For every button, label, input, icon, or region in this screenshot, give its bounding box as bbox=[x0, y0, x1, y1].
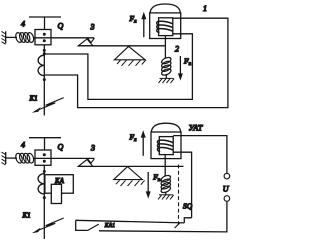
lever 3 bbox=[78, 45, 165, 47]
SQ contact tick bbox=[175, 223, 180, 228]
SQ step wire to KA1 line bbox=[184, 218, 191, 223]
electromagnet YAT body bbox=[151, 123, 181, 158]
force arrow F armature (up, bottom) bbox=[141, 130, 146, 156]
armature rod bbox=[164, 36, 166, 59]
svg-text:3: 3 bbox=[90, 23, 95, 32]
junction dots on conductor (bottom) bbox=[43, 170, 46, 199]
spring 4 bbox=[15, 32, 35, 43]
electromagnet 1 body bbox=[150, 4, 181, 39]
spring 2 bbox=[161, 56, 172, 78]
svg-text:Q: Q bbox=[58, 142, 64, 151]
terminal circle U- bbox=[224, 196, 230, 202]
contact bar wire through box bbox=[34, 37, 95, 39]
wire coil1 top to CT bottom (outer loop) bbox=[45, 18, 228, 107]
fulcrum pivot bbox=[114, 46, 145, 65]
contact dots in box (bottom) bbox=[43, 153, 46, 163]
force arrow F armature (up) bbox=[141, 12, 146, 37]
contact box Q (bottom) bbox=[35, 150, 51, 165]
wall anchor (hatched) bbox=[2, 31, 6, 44]
latch triangle on lever (bottom) bbox=[78, 160, 93, 167]
junction dots on conductor bbox=[43, 49, 46, 81]
force arrow F spring (down) bbox=[178, 56, 183, 81]
svg-text:3: 3 bbox=[90, 143, 95, 152]
force arrow F spring (down, bottom) bbox=[146, 172, 151, 199]
contact dots in box bbox=[43, 33, 46, 43]
terminal circle U+ bbox=[224, 173, 230, 179]
svg-text:1: 1 bbox=[203, 4, 207, 13]
spring (bottom) bbox=[160, 174, 171, 194]
svg-text:Q: Q bbox=[58, 22, 64, 31]
svg-text:Fп: Fп bbox=[183, 57, 192, 68]
svg-text:SQ: SQ bbox=[183, 202, 193, 211]
svg-text:Fя: Fя bbox=[129, 14, 138, 25]
CT winding arcs (bottom) bbox=[38, 174, 44, 194]
relay KA coil rectangle bbox=[51, 184, 61, 203]
svg-text:КА1: КА1 bbox=[104, 223, 115, 229]
SQ dashed mechanical link bbox=[178, 165, 180, 225]
svg-text:U: U bbox=[223, 185, 230, 194]
main conductor below Q (bottom) bbox=[43, 165, 45, 239]
lever 3 (bottom) bbox=[78, 165, 183, 167]
wire wall to spring bbox=[6, 36, 17, 38]
contact bar wire through box (bottom) bbox=[34, 157, 95, 159]
coil of electromagnet 1 bbox=[157, 18, 173, 36]
busbar T above Q bbox=[29, 17, 61, 30]
CT winding arcs bbox=[38, 55, 44, 75]
fulcrum pivot (bottom) bbox=[114, 167, 145, 186]
ground under spring 2 bbox=[159, 78, 175, 83]
latch V notch bbox=[88, 38, 95, 43]
busbar T above Q (bottom) bbox=[29, 138, 61, 150]
svg-text:УАТ: УАТ bbox=[189, 124, 203, 133]
main conductor below Q bbox=[43, 45, 45, 116]
latch triangle on lever bbox=[78, 39, 93, 46]
wire wall to spring (bottom) bbox=[6, 157, 17, 159]
svg-text:К1: К1 bbox=[22, 211, 31, 219]
wall anchor (hatched, bottom) bbox=[2, 152, 6, 165]
contact box Q bbox=[35, 30, 51, 45]
svg-text:Fя: Fя bbox=[129, 133, 138, 144]
svg-text:2: 2 bbox=[175, 45, 179, 54]
svg-text:4: 4 bbox=[21, 20, 25, 29]
spring 4 (bottom) bbox=[15, 153, 35, 164]
trip arrow K1 (lightning, bottom) bbox=[32, 218, 64, 233]
wire U- terminal down and left to KA1 bbox=[99, 201, 227, 232]
KA1 contact blade bbox=[87, 224, 99, 231]
coil of electromagnet YAT bbox=[157, 137, 173, 155]
KA1 feed line (top line of strip) bbox=[76, 220, 185, 223]
svg-text:4: 4 bbox=[21, 141, 25, 150]
KA1 left lead bbox=[76, 220, 88, 230]
wire YAT coil bottom to SQ bbox=[173, 152, 191, 218]
svg-text:Fп: Fп bbox=[152, 173, 161, 184]
trip arrow K1 (lightning) bbox=[32, 98, 64, 113]
svg-text:К1: К1 bbox=[29, 95, 38, 103]
armature rod (bottom) bbox=[164, 155, 166, 177]
ground under spring (bottom) bbox=[158, 195, 174, 200]
latch V notch (bottom) bbox=[88, 159, 95, 164]
wire coil1 bottom to CT top (inner loop) bbox=[45, 34, 192, 100]
wire YAT coil top to U+ terminal bbox=[173, 136, 227, 174]
relay KA box bbox=[45, 175, 73, 194]
svg-text:КА: КА bbox=[54, 177, 65, 185]
